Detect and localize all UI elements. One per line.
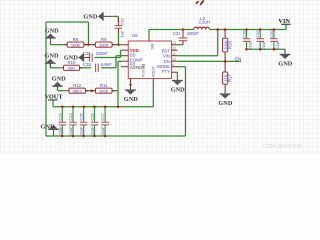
svg-text:AGND: AGND [130, 65, 142, 70]
svg-text:2.2uH: 2.2uH [198, 20, 209, 25]
svg-text:9: 9 [172, 63, 174, 67]
svg-text:22uF: 22uF [261, 40, 266, 50]
svg-text:22uF: 22uF [68, 126, 73, 136]
svg-text:100K: 100K [99, 88, 109, 93]
svg-text:VIN: VIN [278, 18, 290, 25]
svg-text:68K1: 68K1 [73, 88, 83, 93]
svg-text:GND: GND [45, 27, 59, 34]
svg-text:GND: GND [41, 124, 55, 131]
svg-text:10: 10 [172, 57, 176, 61]
svg-text:100nF: 100nF [187, 31, 200, 36]
svg-text:U5: U5 [132, 33, 138, 38]
svg-text:C27: C27 [100, 112, 105, 120]
svg-text:GND: GND [124, 96, 138, 103]
svg-text:EN: EN [164, 59, 170, 64]
svg-text:FTY: FTY [162, 69, 170, 74]
svg-text:22uF: 22uF [100, 126, 105, 136]
svg-text:VOUT: VOUT [151, 66, 155, 77]
svg-text:C25: C25 [79, 112, 84, 120]
svg-text:22uF: 22uF [79, 126, 84, 136]
svg-text:SW: SW [151, 43, 155, 50]
svg-text:100K: 100K [99, 42, 109, 47]
svg-text:R11: R11 [100, 83, 108, 88]
svg-text:22uF: 22uF [247, 40, 252, 50]
svg-text:C19: C19 [255, 30, 260, 38]
svg-text:C26: C26 [89, 112, 94, 120]
svg-text:6.8nF: 6.8nF [101, 62, 112, 67]
svg-text:GND: GND [171, 86, 185, 93]
svg-text:GND: GND [83, 14, 97, 21]
svg-text:C31: C31 [83, 51, 91, 56]
svg-text:R8: R8 [101, 37, 107, 42]
svg-text:11: 11 [172, 52, 176, 56]
svg-text:C18: C18 [242, 30, 247, 38]
svg-text:CSDN @KIGHS4S: CSDN @KIGHS4S [263, 144, 302, 149]
svg-text:22uF: 22uF [89, 126, 94, 136]
svg-text:R12: R12 [73, 83, 81, 88]
svg-text:EN: EN [235, 57, 241, 62]
svg-text:22uF: 22uF [57, 126, 62, 136]
svg-text:12: 12 [172, 46, 176, 50]
svg-text:GND: GND [52, 76, 66, 83]
svg-text:GND: GND [278, 60, 292, 67]
svg-text:C32: C32 [119, 17, 124, 25]
svg-text:VOUT: VOUT [44, 94, 63, 101]
svg-text:PGND: PGND [142, 66, 146, 77]
svg-text:BST: BST [162, 48, 171, 53]
svg-text:GND: GND [45, 53, 59, 60]
svg-text:R16: R16 [228, 41, 233, 49]
svg-text:13: 13 [172, 41, 176, 45]
svg-text:22uF: 22uF [275, 40, 280, 50]
svg-text:C33: C33 [83, 62, 91, 67]
svg-text:GND: GND [64, 55, 78, 62]
svg-text:GND: GND [218, 100, 232, 107]
svg-text:100nF: 100nF [96, 51, 109, 56]
svg-text:C24: C24 [68, 112, 73, 120]
svg-text:100K: 100K [71, 42, 81, 47]
svg-text:C21: C21 [173, 31, 181, 36]
svg-text:C20: C20 [269, 30, 274, 38]
svg-text:36K: 36K [68, 66, 75, 71]
svg-text:1uF: 1uF [119, 30, 124, 37]
svg-text:R17: R17 [228, 74, 233, 82]
svg-text:C23: C23 [57, 112, 62, 120]
svg-text:R9: R9 [73, 37, 79, 42]
